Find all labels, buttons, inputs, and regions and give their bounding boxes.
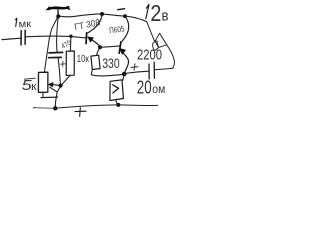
svg-text:10к: 10к <box>77 53 89 65</box>
node Q1 emitter junction <box>98 45 102 49</box>
wire speaker to rail <box>116 101 118 105</box>
potentiometer R1 5к box <box>38 72 48 92</box>
svg-text:в: в <box>162 7 169 24</box>
scribble blob at top <box>48 7 68 9</box>
wire 10k top lead <box>69 36 72 51</box>
wire battery branch lower <box>167 45 175 68</box>
capacitor C2 (470) <box>49 51 63 54</box>
transistor Q2 П605 <box>119 17 128 74</box>
wire rail right <box>120 104 158 107</box>
wire rail left <box>35 107 55 110</box>
wire R330 bottom to node <box>91 70 123 76</box>
minus label <box>118 9 125 10</box>
wire to Q2 base <box>100 46 120 47</box>
node J2 wiper junction <box>59 84 63 88</box>
node Q2 collector on rail <box>123 14 127 18</box>
wire C2 bottom lead <box>58 58 60 85</box>
svg-text:330: 330 <box>102 56 120 71</box>
wire pot bottom lead <box>42 92 44 97</box>
speaker chevron <box>113 85 119 93</box>
wire node to speaker <box>123 75 124 81</box>
wire node to C3 <box>124 71 148 73</box>
wire battery branch upper <box>147 22 155 42</box>
node rail speaker <box>116 103 120 107</box>
svg-text:2200: 2200 <box>137 48 162 64</box>
stub scribble to node <box>57 11 59 15</box>
svg-text:к: к <box>31 81 37 93</box>
resistor R2 10к box <box>66 51 74 75</box>
node rail main junction <box>53 106 57 110</box>
label 12в <box>146 4 149 18</box>
plus mark C2 <box>61 62 66 67</box>
label C1 1мк <box>15 18 17 26</box>
svg-text:П605: П605 <box>109 24 126 35</box>
wire to R330 top <box>97 49 100 56</box>
wire node to C2 <box>57 18 59 52</box>
wiper arrow <box>50 83 60 86</box>
plus label battery <box>75 108 86 117</box>
wire tee bar <box>41 96 58 99</box>
node 10k top junction <box>69 35 72 38</box>
wire J2 down to rail <box>55 87 60 107</box>
wire C3 right <box>155 68 173 70</box>
wire node to potentiometer <box>44 17 57 72</box>
connector flag symbol <box>155 33 167 47</box>
transistor Q1 ГТ308 <box>86 15 102 47</box>
svg-text:ом: ом <box>152 82 165 96</box>
plus mark C3 <box>131 64 138 70</box>
wire top rail <box>60 14 102 17</box>
wire 10k bottom lead <box>61 75 70 85</box>
svg-text:2: 2 <box>150 0 161 26</box>
wire C1 to Q1 base <box>25 36 86 38</box>
capacitor C1 <box>20 31 22 45</box>
node top junction <box>56 14 60 18</box>
resistor R3 330 box <box>91 55 100 69</box>
speaker box BA1 <box>110 80 124 101</box>
wire rail middle <box>55 105 116 108</box>
node rail left speck <box>33 107 35 109</box>
svg-text:мк: мк <box>18 18 32 31</box>
node Q1 collector on rail <box>100 12 104 16</box>
capacitor C3 2200 <box>148 64 150 79</box>
svg-text:20: 20 <box>137 77 152 98</box>
node output junction <box>122 72 127 77</box>
wire input left <box>2 38 21 39</box>
